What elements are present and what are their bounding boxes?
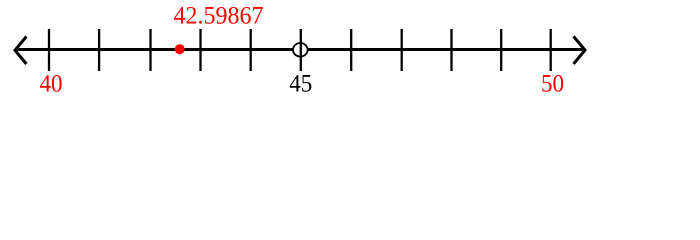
svg-text:45: 45: [289, 71, 312, 98]
tick 42: [149, 29, 151, 71]
left arrowhead: [15, 37, 26, 65]
tick 46: [350, 29, 352, 71]
tick 50: [550, 29, 552, 71]
right arrowhead: [574, 36, 586, 64]
tick 45: [300, 29, 302, 71]
svg-text:50: 50: [541, 71, 564, 98]
tick 41: [98, 29, 100, 71]
number line axis: [15, 48, 585, 51]
tick 43: [199, 29, 201, 71]
open circle at 45: [293, 43, 308, 57]
svg-text:42.59867: 42.59867: [174, 3, 264, 30]
tick 47: [401, 29, 403, 71]
tick 48: [450, 29, 452, 71]
red point at 42.59867: [175, 44, 185, 54]
tick 49: [500, 29, 502, 71]
tick 44: [250, 29, 252, 71]
svg-text:40: 40: [40, 71, 63, 98]
tick 40: [48, 29, 50, 71]
